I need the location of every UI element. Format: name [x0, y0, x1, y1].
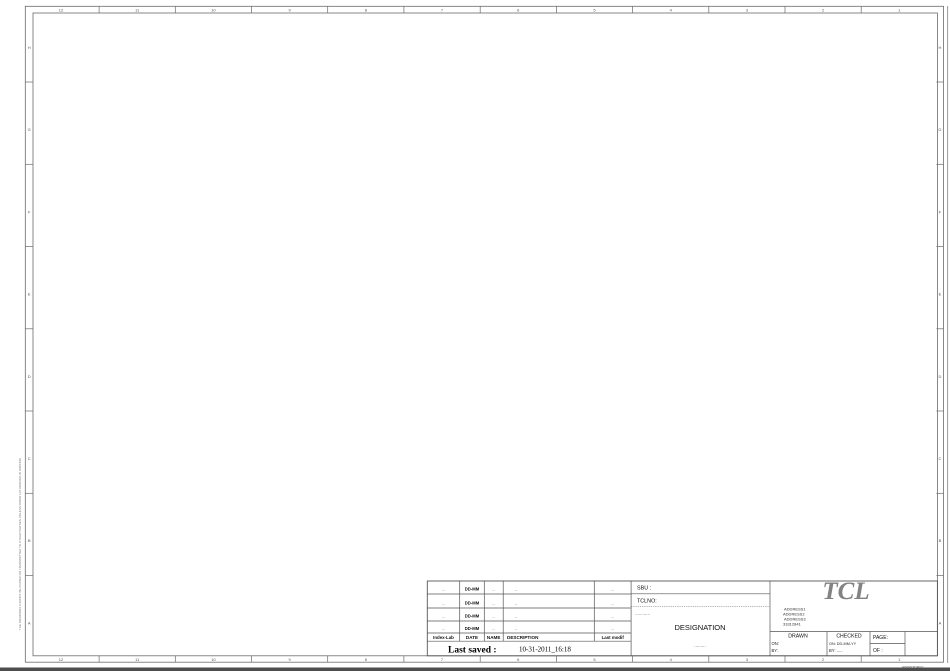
svg-text:ON: DD-MM-YY: ON: DD-MM-YY [829, 642, 857, 646]
frame column tick [555, 6, 557, 13]
title block outline [427, 581, 937, 656]
svg-text:G: G [28, 127, 31, 132]
svg-text:...: ... [611, 627, 614, 631]
frame column tick [708, 6, 710, 13]
svg-text:DD-MM: DD-MM [465, 614, 480, 619]
frame column tick [784, 6, 786, 13]
svg-text:A: A [939, 620, 942, 625]
svg-text:...: ... [442, 588, 445, 592]
svg-text:BY:: BY: [772, 648, 779, 653]
frame column tick [479, 6, 481, 13]
right edge strip [947, 6, 949, 663]
svg-text:...: ... [492, 602, 495, 606]
svg-text:DESIGNATION: DESIGNATION [674, 623, 725, 632]
svg-text:Last saved :: Last saved : [448, 646, 497, 656]
frame row tick [25, 492, 33, 494]
drawn checked row lines [770, 631, 937, 633]
revision table row lines [427, 593, 631, 595]
svg-text:...: ... [442, 627, 445, 631]
svg-text:............: ............ [635, 611, 650, 616]
svg-text:E: E [939, 292, 942, 297]
svg-text:...: ... [515, 615, 518, 619]
svg-text:...: ... [442, 615, 445, 619]
svg-text:10-31-2011_16:18: 10-31-2011_16:18 [519, 646, 571, 654]
svg-text:BY: .....: BY: ..... [829, 648, 843, 653]
svg-text:H: H [938, 45, 941, 50]
svg-text:...: ... [492, 615, 495, 619]
svg-text:DATE: DATE [466, 635, 478, 640]
svg-text:CHECKED: CHECKED [836, 634, 862, 640]
svg-text:Index-Lab: Index-Lab [433, 635, 454, 640]
svg-text:THE DRAWINGS CANNOT BE COPIED: THE DRAWINGS CANNOT BE COPIED OR TRANSMI… [18, 457, 22, 630]
svg-text:G: G [938, 127, 941, 132]
svg-text:B: B [28, 538, 31, 543]
svg-text:...: ... [611, 588, 614, 592]
frame column tick [327, 6, 329, 13]
svg-text:DD-MM: DD-MM [465, 587, 480, 592]
svg-text:B: B [939, 538, 942, 543]
svg-text:TCL: TCL [822, 578, 869, 605]
frame column tick [632, 6, 634, 13]
bottom dark bar [0, 668, 950, 671]
frame row tick [25, 328, 33, 330]
frame column tick [403, 6, 405, 13]
svg-text:TCLNO:: TCLNO: [637, 599, 657, 605]
svg-text:...: ... [611, 602, 614, 606]
svg-text:12: 12 [59, 8, 64, 13]
frame column tick [174, 6, 176, 13]
svg-text:A: A [28, 620, 31, 625]
svg-text:...: ... [442, 602, 445, 606]
svg-text:10: 10 [211, 657, 216, 662]
frame column tick [251, 6, 253, 13]
svg-text:DD-MM: DD-MM [465, 601, 480, 606]
revision table column lines [459, 581, 461, 641]
frame row tick [25, 575, 33, 577]
frame row tick [25, 410, 33, 412]
company section divider [769, 581, 771, 656]
frame column tick [860, 6, 862, 13]
svg-text:...: ... [515, 588, 518, 592]
svg-text:C: C [938, 456, 941, 461]
svg-text:D: D [28, 374, 31, 379]
svg-text:12: 12 [59, 657, 64, 662]
svg-text:OF :: OF : [873, 648, 883, 654]
svg-text:DESCRIPTION: DESCRIPTION [507, 635, 539, 640]
frame column tick [98, 6, 100, 13]
svg-text:...: ... [492, 588, 495, 592]
svg-text:...: ... [492, 627, 495, 631]
svg-text:...: ... [515, 627, 518, 631]
svg-text:D: D [938, 374, 941, 379]
svg-text:SBU :: SBU : [637, 586, 651, 592]
svg-text:E: E [28, 292, 31, 297]
svg-text:NAME: NAME [487, 635, 501, 640]
svg-text:DD-MM: DD-MM [465, 626, 480, 631]
svg-text:P0806(TDP)A1: P0806(TDP)A1 [902, 665, 924, 669]
svg-text:33312841: 33312841 [783, 622, 802, 627]
frame row tick [25, 163, 33, 165]
svg-text:.........: ......... [694, 643, 705, 648]
svg-text:C: C [28, 456, 31, 461]
svg-text:PAGE:: PAGE: [873, 635, 888, 641]
svg-text:DRAWN: DRAWN [788, 634, 808, 640]
svg-text:H: H [28, 45, 31, 50]
svg-text:ON:: ON: [772, 641, 779, 646]
svg-text:10: 10 [211, 8, 216, 13]
svg-text:Last modif: Last modif [602, 635, 625, 640]
svg-text:...: ... [611, 615, 614, 619]
frame row tick [25, 81, 33, 83]
frame row tick [25, 246, 33, 248]
svg-text:...: ... [515, 602, 518, 606]
